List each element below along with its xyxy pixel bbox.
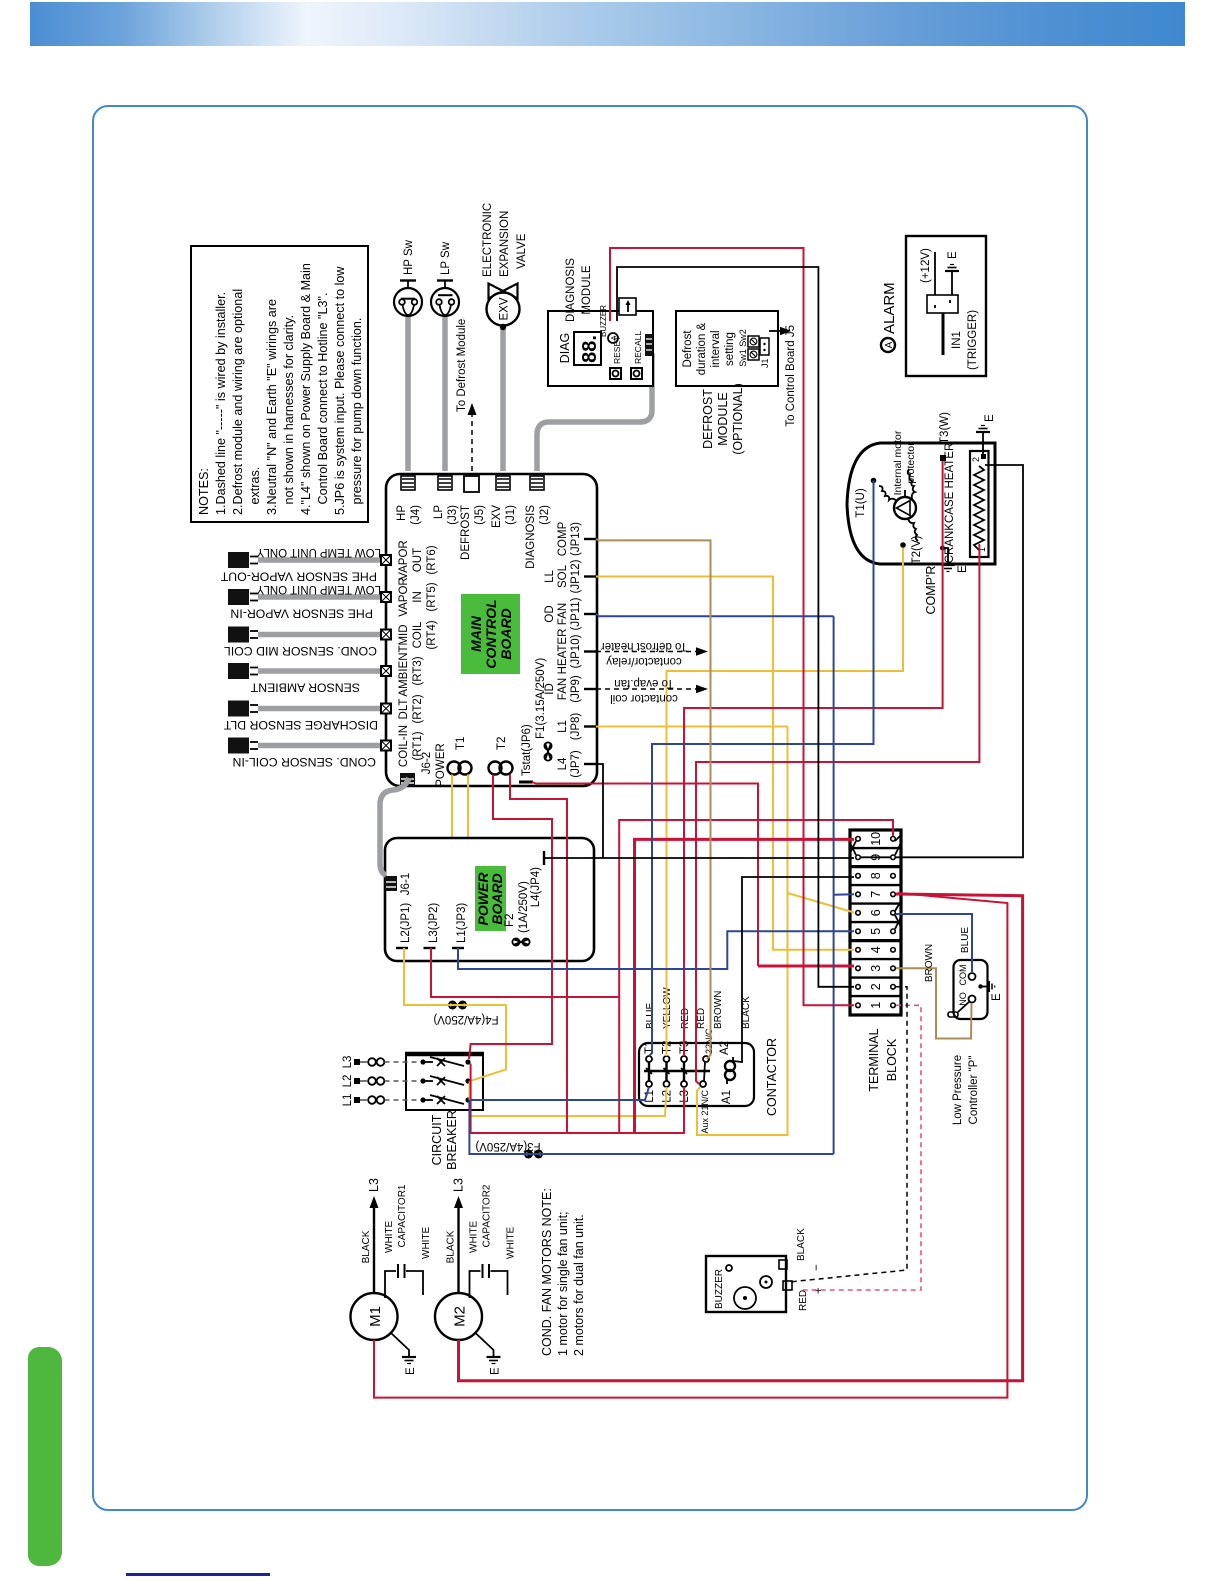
buzzer box: [706, 1228, 825, 1312]
svg-text:TERMINAL: TERMINAL: [867, 1028, 881, 1091]
svg-text:1 motor for single fan unit;: 1 motor for single fan unit;: [556, 1211, 570, 1356]
svg-text:contactor coil: contactor coil: [610, 692, 678, 704]
svg-text:(JP9): (JP9): [570, 675, 582, 703]
connector J6-1: [385, 873, 412, 895]
svg-text:setting: setting: [724, 332, 736, 366]
gray cable HP switch to J4: [405, 317, 411, 471]
wire blue trunk OD fan: [469, 614, 854, 1154]
svg-text:F1(3.15A/250V): F1(3.15A/250V): [535, 658, 547, 739]
svg-text:CIRCUIT: CIRCUIT: [430, 1114, 444, 1165]
condenser fan motors note: [540, 1188, 586, 1356]
svg-text:To Defrost Module: To Defrost Module: [456, 319, 468, 412]
svg-text:COIL: COIL: [412, 621, 424, 648]
svg-text:4."L4" shown on Power Supply B: 4."L4" shown on Power Supply Board & Mai…: [299, 263, 313, 515]
main control board U1: [386, 474, 597, 786]
NOTES box: [191, 246, 368, 522]
svg-text:3: 3: [869, 965, 883, 972]
wire red T2 coil to breaker L3: [469, 775, 552, 1060]
svg-text:IN: IN: [412, 591, 424, 603]
dashed red terminal 1 to buzzer +: [800, 1005, 921, 1290]
svg-text:COMP'R: COMP'R: [924, 566, 938, 615]
contactor wire colour labels: [645, 987, 752, 1029]
svg-text:ELECTRONIC: ELECTRONIC: [482, 203, 494, 277]
connector J5 DEFROST: [460, 476, 486, 560]
svg-text:BLACK: BLACK: [796, 1228, 807, 1261]
svg-text:E: E: [490, 1367, 502, 1375]
svg-text:POWER: POWER: [435, 743, 447, 786]
gray cable EXV to J1: [500, 329, 506, 471]
svg-text:FAN: FAN: [557, 678, 569, 700]
svg-text:E: E: [957, 565, 969, 573]
svg-text:T1(U): T1(U): [855, 488, 867, 518]
terminal screws top row: [856, 837, 861, 1008]
svg-text:F3(4A/250V): F3(4A/250V): [475, 1140, 540, 1152]
svg-text:CRANKCASE HEATER: CRANKCASE HEATER: [944, 443, 956, 564]
svg-text:BUZZER: BUZZER: [599, 305, 608, 337]
svg-text:A: A: [884, 341, 895, 348]
sensor cable RT5 PHE SENSOR VAPOR-IN: [228, 583, 383, 621]
terminal screws bottom row: [891, 837, 896, 1008]
svg-text:protector: protector: [905, 442, 917, 484]
svg-text:E: E: [991, 993, 1003, 1001]
dashed arrow JP9 to evap fan contactor coil: [596, 677, 708, 704]
svg-text:VALVE: VALVE: [516, 233, 528, 269]
wire yellow compressor T2(V) to contactor T2: [667, 548, 904, 1056]
svg-text:Internal motor: Internal motor: [892, 430, 904, 495]
svg-text:(J1): (J1): [505, 505, 517, 525]
svg-text:not shown in harnesses for cl: not shown in harnesses for clarity.: [282, 315, 296, 515]
svg-text:A: A: [611, 335, 618, 340]
svg-text:CAPACITOR1: CAPACITOR1: [397, 1184, 408, 1247]
svg-text:F4(4A/250V): F4(4A/250V): [433, 1013, 498, 1025]
svg-text:Control Board connect to Hotli: Control Board connect to Hotline "L3".: [316, 293, 330, 515]
svg-text:BLACK: BLACK: [361, 1230, 372, 1263]
svg-text:2 motors for dual fan unit.: 2 motors for dual fan unit.: [572, 1214, 586, 1356]
svg-text:SENSOR AMBIENT: SENSOR AMBIENT: [250, 681, 360, 695]
svg-text:L3: L3: [342, 1056, 354, 1069]
svg-text:OD: OD: [544, 605, 556, 622]
svg-text:A2: A2: [719, 1041, 731, 1055]
svg-text:COND. SENSOR MID COIL: COND. SENSOR MID COIL: [224, 644, 377, 658]
svg-text:HP: HP: [396, 505, 408, 521]
header gradient bar: [30, 2, 1185, 46]
svg-text:EXV: EXV: [499, 297, 511, 320]
connector J3 LP: [433, 476, 459, 525]
svg-text:L2: L2: [342, 1075, 354, 1088]
svg-text:T1: T1: [455, 737, 467, 750]
transformer coil T2: [489, 737, 513, 775]
svg-text:Controller "P": Controller "P": [968, 1056, 980, 1125]
terminal block: [850, 830, 901, 1015]
svg-text:L3: L3: [367, 1178, 381, 1192]
ground E at crankcase heater 2: [976, 414, 996, 455]
sensor cable RT4 COND. SENSOR MID COIL: [224, 627, 383, 659]
wire red terminal 7 to fan motor M2: [459, 894, 1023, 1381]
svg-text:BOARD: BOARD: [498, 608, 514, 659]
svg-text:COND. FAN MOTORS NOTE:: COND. FAN MOTORS NOTE:: [540, 1188, 554, 1356]
contactor poles: [644, 1028, 735, 1134]
svg-text:88.: 88.: [579, 335, 601, 363]
svg-text:COM: COM: [958, 965, 968, 986]
svg-text:COIL-IN: COIL-IN: [398, 725, 410, 767]
main control board green label: [461, 594, 520, 674]
svg-text:L3(JP2): L3(JP2): [428, 903, 440, 943]
svg-text:MID: MID: [398, 624, 410, 645]
svg-text:DEFROST: DEFROST: [701, 389, 715, 449]
low pressure controller P: [948, 960, 1003, 1125]
svg-text:−: −: [811, 1264, 823, 1271]
JP7-JP13 pin stubs and labels on board bottom edge: [544, 521, 596, 777]
svg-text:(JP13): (JP13): [570, 522, 582, 556]
svg-text:BLUE: BLUE: [645, 1003, 656, 1029]
svg-text:T2: T2: [496, 737, 508, 750]
svg-text:CONTACTOR: CONTACTOR: [765, 1038, 779, 1116]
wire red crankcase heater to contactor Aux 21N/C: [696, 545, 980, 1084]
svg-text:(RT2): (RT2): [412, 694, 424, 723]
svg-text:10: 10: [869, 832, 883, 846]
svg-text:(RT3): (RT3): [412, 656, 424, 685]
svg-text:BREAKER: BREAKER: [445, 1110, 459, 1170]
svg-text:BLACK: BLACK: [446, 1230, 457, 1263]
svg-text:pressure for pump down functio: pressure for pump down function.: [350, 318, 364, 515]
wire red contactor T3 to compressor T3(W): [684, 461, 943, 1056]
wire brown JP13 to contactor Aux 22N/C: [596, 539, 711, 1059]
svg-text:(JP11): (JP11): [570, 597, 582, 630]
wire blue breaker L1 to contactor L1: [470, 1087, 649, 1100]
svg-text:BROWN: BROWN: [924, 944, 935, 982]
svg-text:1: 1: [869, 1002, 883, 1009]
svg-text:L3: L3: [452, 1178, 466, 1192]
dashed arrow JP10 to defrost heater contactor: [596, 640, 708, 667]
wire yellow JP12 to terminal 4: [596, 577, 854, 950]
connector J2 DIAGNOSIS: [525, 476, 551, 569]
svg-text:M1: M1: [367, 1306, 384, 1327]
svg-text:(RT4): (RT4): [426, 620, 438, 649]
svg-text:(JP12): (JP12): [570, 559, 582, 593]
compressor COMPR outline: [847, 443, 995, 564]
svg-text:(1A/250V): (1A/250V): [518, 881, 530, 933]
fan motor M1: [351, 1178, 433, 1375]
svg-text:COMP: COMP: [557, 521, 569, 556]
svg-text:DIAGNOSIS: DIAGNOSIS: [565, 258, 577, 322]
svg-text:(J2): (J2): [539, 505, 551, 525]
svg-text:(J4): (J4): [410, 505, 422, 525]
footer navy underline: [126, 1573, 270, 1576]
svg-text:NOTES:: NOTES:: [197, 468, 211, 515]
wire yellow trunk to terminal 6 diagonal: [788, 893, 855, 913]
fuse F2: [504, 881, 530, 946]
svg-text:WHITE: WHITE: [421, 1226, 432, 1259]
dashed arrow To Defrost Module from J5: [456, 319, 477, 471]
svg-text:PHE SENSOR VAPOR-IN: PHE SENSOR VAPOR-IN: [230, 607, 373, 621]
wire yellow JP8 trunk: [596, 727, 788, 1136]
svg-text:ALARM: ALARM: [881, 282, 898, 334]
svg-text:A1: A1: [721, 1090, 733, 1104]
svg-text:extras.: extras.: [248, 467, 262, 515]
svg-text:MODULE: MODULE: [716, 392, 730, 445]
svg-text:2: 2: [971, 457, 981, 462]
connector J4 HP: [396, 476, 422, 525]
svg-text:T1: T1: [644, 1041, 656, 1054]
fan motor M2: [435, 1178, 517, 1375]
svg-text:Tstat(JP6): Tstat(JP6): [521, 724, 533, 776]
svg-text:VAPOR: VAPOR: [398, 540, 410, 579]
svg-text:AMBIENT: AMBIENT: [398, 645, 410, 696]
svg-text:MODULE: MODULE: [581, 265, 593, 315]
contactor box: [639, 1038, 779, 1116]
svg-text:To evap.fan: To evap.fan: [614, 677, 673, 689]
svg-text:CAPACITOR2: CAPACITOR2: [482, 1184, 493, 1247]
sensor cable RT3 SENSOR AMBIENT: [228, 663, 383, 695]
wire yellow breaker L2 out to contactor L2: [470, 1081, 667, 1116]
jumpers between terminals 9-10 and 5-6: [849, 836, 902, 929]
transformer coil T1: [448, 737, 472, 838]
svg-text:3.Neutral "N" and Earth "E" wi: 3.Neutral "N" and Earth "E" wirings are: [265, 299, 279, 515]
wire red JP2 to trunk: [431, 948, 619, 997]
LP pressure switch: [431, 241, 459, 316]
wire blue contactor T1 to compressor T1(U): [649, 481, 874, 1057]
svg-text:RED: RED: [680, 1008, 691, 1029]
svg-text:RED: RED: [798, 1290, 809, 1311]
wire red Tstat(JP6) to terminal 3: [532, 782, 758, 966]
gray cable J2 to diagnosis module: [537, 353, 652, 471]
svg-text:J1: J1: [760, 358, 770, 368]
svg-text:22N/C: 22N/C: [704, 1028, 714, 1054]
svg-text:1.Dashed line "-----" is wired: 1.Dashed line "-----" is wired by instal…: [214, 292, 228, 515]
wire red breaker L3 out to contactor L3: [471, 1064, 684, 1134]
svg-text:DLT: DLT: [398, 699, 410, 720]
svg-text:T3(W): T3(W): [939, 412, 951, 444]
wire yellow JP1 feed through F4 to breaker L2: [404, 948, 506, 1081]
svg-text:Defrost: Defrost: [682, 330, 694, 368]
svg-text:5.JP6 is system input. Please: 5.JP6 is system input. Please connect to…: [333, 266, 347, 515]
defrost module U4: [676, 311, 797, 455]
svg-text:RED: RED: [696, 1008, 707, 1029]
HP pressure switch: [394, 239, 422, 316]
svg-text:IN1: IN1: [951, 331, 963, 349]
fuse F4 on yellow feed: [433, 1001, 498, 1025]
svg-text:DISCHARGE SENSOR DLT: DISCHARGE SENSOR DLT: [223, 718, 378, 732]
svg-text:EXPANSION: EXPANSION: [499, 211, 511, 277]
svg-text:(JP7): (JP7): [570, 750, 582, 778]
wire red terminal 7 to fan motor M1: [374, 893, 1007, 1398]
svg-text:T2(V): T2(V): [911, 535, 923, 564]
svg-text:(J3): (J3): [447, 505, 459, 525]
svg-text:MAIN: MAIN: [468, 615, 484, 652]
svg-text:Low Pressure: Low Pressure: [952, 1055, 964, 1125]
svg-text:(JP10): (JP10): [570, 634, 582, 668]
svg-text:L4(JP4): L4(JP4): [530, 867, 542, 907]
svg-text:LP Sw: LP Sw: [440, 241, 452, 275]
svg-text:8: 8: [869, 872, 883, 879]
power board U2: [385, 838, 594, 961]
wire black diagnosis module to terminal 2: [617, 267, 854, 987]
svg-text:DIAGNOSIS: DIAGNOSIS: [525, 505, 537, 569]
svg-text:CONTROL: CONTROL: [483, 599, 499, 668]
svg-text:(JP8): (JP8): [570, 713, 582, 741]
RT pin headers on board top edge: [381, 555, 391, 751]
svg-text:FAN: FAN: [557, 603, 569, 625]
svg-text:(OPTIONAL): (OPTIONAL): [731, 383, 745, 455]
fuse F1: [535, 658, 552, 761]
svg-text:J6-1: J6-1: [400, 873, 412, 895]
svg-text:L2(JP1): L2(JP1): [400, 903, 412, 943]
svg-text:LOW TEMP UNIT ONLY: LOW TEMP UNIT ONLY: [256, 546, 381, 558]
svg-text:To defrost heater: To defrost heater: [601, 640, 687, 652]
dashed black terminal 2 to buzzer -: [789, 987, 907, 1282]
EXV electronic expansion valve: [482, 203, 528, 330]
svg-text:L1(JP3): L1(JP3): [456, 903, 468, 943]
svg-text:RECALL: RECALL: [633, 331, 643, 364]
svg-text:BLUE: BLUE: [960, 927, 971, 953]
svg-text:PHE SENSOR VAPOR-OUT: PHE SENSOR VAPOR-OUT: [220, 570, 377, 584]
diagram frame: [92, 105, 1088, 1511]
svg-text:F2: F2: [504, 914, 516, 927]
green side tab: [28, 1347, 62, 1566]
svg-text:duration &: duration &: [696, 322, 708, 375]
svg-text:E: E: [947, 251, 959, 259]
svg-text:To Control Board J5: To Control Board J5: [785, 325, 797, 427]
svg-text:EXV: EXV: [491, 505, 503, 528]
wire red thick trunk to terminal 10 top: [635, 839, 855, 1133]
breaker poles L1 L2 L3: [342, 1056, 471, 1107]
svg-text:BROWN: BROWN: [713, 991, 724, 1029]
wire red diagnosis module to terminal 1: [610, 248, 854, 1005]
diagnosis module U3: [548, 258, 653, 386]
svg-text:VAPOR: VAPOR: [398, 577, 410, 616]
svg-text:(RT5): (RT5): [426, 582, 438, 611]
wire red T2 coil right to thick trunk: [510, 775, 567, 1134]
svg-text:2.Defrost module and wiring ar: 2.Defrost module and wiring are optional: [231, 289, 245, 515]
svg-text:Aux 21N/C: Aux 21N/C: [700, 1090, 710, 1134]
svg-text:J6-2: J6-2: [421, 752, 433, 774]
svg-text:5: 5: [869, 928, 883, 935]
svg-text:(TRIGGER): (TRIGGER): [967, 310, 979, 370]
wire blue P controller COM to terminal 6: [896, 914, 972, 973]
sensor cable RT1 COND. SENSOR COIL-IN: [228, 738, 383, 770]
svg-text:7: 7: [869, 891, 883, 898]
svg-text:L1: L1: [557, 720, 569, 733]
ground E at compressor shell: [940, 546, 969, 574]
svg-text:OUT: OUT: [412, 548, 424, 572]
svg-text:(J5): (J5): [474, 505, 486, 525]
svg-text:BUZZER: BUZZER: [714, 1269, 725, 1309]
svg-text:2: 2: [869, 983, 883, 990]
crankcase heater: [944, 443, 989, 564]
svg-text:WHITE: WHITE: [469, 1220, 480, 1253]
sensor cable RT6 PHE SENSOR VAPOR-OUT: [220, 546, 383, 584]
wire brown terminal 3 to P controller NO: [896, 968, 972, 1038]
svg-text:DIAG: DIAG: [558, 333, 572, 364]
svg-text:WHITE: WHITE: [506, 1226, 517, 1259]
svg-text:E: E: [405, 1367, 417, 1375]
wire red trunk to terminal 10 bottom: [619, 820, 893, 1133]
power board green label: [475, 866, 506, 931]
pins JP1 JP2 JP3 on power board left edge: [396, 903, 468, 948]
svg-text:DEFROST: DEFROST: [460, 505, 472, 560]
alarm inset box: [881, 236, 986, 376]
svg-text:BLOCK: BLOCK: [885, 1038, 899, 1081]
svg-text:COND. SENSOR COIL-IN: COND. SENSOR COIL-IN: [233, 755, 376, 769]
svg-text:WHITE: WHITE: [384, 1220, 395, 1253]
svg-text:L2: L2: [662, 1090, 674, 1103]
svg-text:(+12V): (+12V): [920, 248, 932, 283]
svg-text:LL: LL: [544, 570, 556, 583]
gray cable LP switch to J3: [442, 317, 448, 471]
connector J1 EXV: [491, 476, 517, 528]
svg-text:M2: M2: [452, 1306, 469, 1327]
svg-text:(RT6): (RT6): [426, 545, 438, 574]
svg-text:HEATER: HEATER: [557, 629, 569, 675]
wire black L4(JP4) and L4(JP7) to terminal 9: [544, 764, 890, 858]
svg-text:Sw1 Sw2: Sw1 Sw2: [738, 329, 748, 367]
svg-text:interval: interval: [710, 330, 722, 367]
svg-text:HP Sw: HP Sw: [403, 239, 415, 275]
svg-text:LP: LP: [433, 505, 445, 519]
RT labels: [398, 540, 438, 767]
gray cable J6-2 to J6-1: [380, 778, 409, 875]
sensor cable RT2 DISCHARGE SENSOR DLT: [223, 701, 383, 733]
svg-text:L4: L4: [557, 757, 569, 770]
circuit breaker box: [405, 1054, 484, 1170]
svg-text:contactor/relay: contactor/relay: [606, 655, 682, 667]
connector J6-2 POWER: [400, 743, 447, 786]
wire black contactor coil A2 to terminal 8: [733, 877, 854, 1062]
pin L4(JP4): [530, 851, 544, 907]
svg-text:BOARD: BOARD: [489, 873, 505, 924]
compressor motor delta: [855, 412, 951, 615]
svg-text:LOW TEMP UNIT ONLY: LOW TEMP UNIT ONLY: [256, 583, 381, 595]
svg-text:6: 6: [869, 909, 883, 916]
svg-text:E: E: [984, 414, 996, 422]
svg-text:L1: L1: [342, 1094, 354, 1107]
wire blue JP3 to terminal 5: [458, 931, 854, 969]
Tstat(JP6) pin: [519, 724, 533, 782]
fuse F3 on blue feed: [475, 1140, 542, 1158]
wire black terminal 9 to crankcase heater 2: [896, 465, 1023, 857]
svg-text:4: 4: [869, 946, 883, 953]
svg-text:SOL: SOL: [557, 564, 569, 588]
